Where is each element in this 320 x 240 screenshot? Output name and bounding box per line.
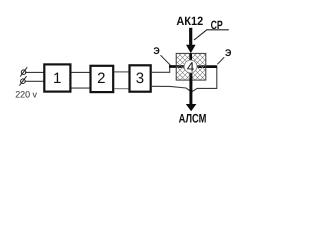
wire 2-3 upper <box>114 71 128 73</box>
circle with 4 <box>184 60 197 73</box>
svg-text:АК12: АК12 <box>176 14 203 28</box>
wire 2-3 lower <box>114 88 128 90</box>
svg-text:Э: Э <box>225 48 232 59</box>
svg-text:2: 2 <box>97 70 105 87</box>
wire 3 lower rail under block 4 <box>152 86 191 91</box>
output arrow to ALSM <box>186 104 197 111</box>
wire 1-2 upper <box>72 71 90 73</box>
thick right bar into block 4 <box>196 65 217 68</box>
svg-text:АЛСМ: АЛСМ <box>179 112 207 126</box>
vertical shaft through block 4 bottom and out <box>189 72 192 105</box>
wire 1-2 lower <box>72 87 90 89</box>
svg-text:1: 1 <box>53 70 61 87</box>
terminal lower (phase) <box>20 76 44 85</box>
AK12 input arrow (thick) <box>189 28 192 46</box>
wire 3 to block4 upper with jog <box>152 67 170 73</box>
svg-text:3: 3 <box>136 70 144 87</box>
block 3 <box>130 65 151 91</box>
svg-text:220 v: 220 v <box>15 90 37 100</box>
thick left bar into block 4 <box>169 65 185 68</box>
terminal upper (phase) <box>20 67 43 76</box>
svg-text:4: 4 <box>187 59 195 74</box>
block 1 <box>44 64 70 91</box>
wire right rail from shaft up to right bar <box>192 67 217 92</box>
block 2 <box>91 66 114 92</box>
vertical shaft through block 4 top <box>189 53 192 61</box>
svg-text:Э: Э <box>153 46 160 57</box>
block 4 (hatched receiver) <box>176 53 206 80</box>
